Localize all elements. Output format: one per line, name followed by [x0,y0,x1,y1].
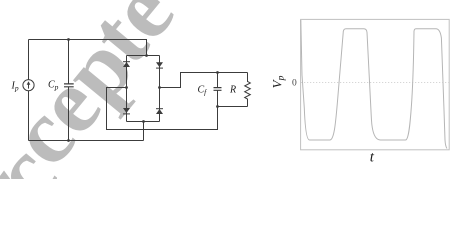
watermark fragment (next row letter tip, bottom-left corner) [0,171,11,181]
wire: bottom rail of input loop [29,140,144,142]
capacitor Cf bottom lead [217,90,219,106]
wire: left vertical above current source [28,40,30,80]
capacitor Cp top lead [68,40,70,84]
junction dot Cf bottom [216,105,219,108]
diode D2 (top-right, pointing down) [156,62,163,67]
svg-text:Vp: Vp [270,75,287,88]
bridge bottom rail [127,121,160,123]
wire: DC plus path (right mid to top of output loop) [160,73,248,88]
bridge left branch [126,56,128,122]
current source Ip circle [23,80,34,91]
wire: bridge bottom feed to bottom rail [143,122,145,141]
capacitor Cf plates [214,88,222,91]
junction dot bridge left mid [125,86,128,89]
svg-text:Cf: Cf [198,85,208,97]
wire: DC minus path (left mid to Cf bottom) [107,88,218,130]
diode D3 (bottom-left, pointing down) [123,108,130,113]
junction dot Cp top [67,38,70,41]
wire: output loop bottom rail [218,106,248,108]
wire: left vertical below current source [28,91,30,141]
waveform Vp(t) [301,20,447,149]
plot box [301,19,450,149]
capacitor Cp plates [64,84,74,87]
bridge top rail [127,55,160,57]
junction dot Cf top [216,71,219,74]
junction dot Cp bottom [67,139,70,142]
diode D1 (top-left, pointing up) [123,62,130,67]
capacitor Cf top lead [217,73,219,88]
junction dot bridge right mid [158,86,161,89]
resistor R with zigzag [245,73,251,107]
svg-text:R: R [229,85,236,96]
wire: top rail of input loop [29,40,147,56]
plot zero dotted line [301,82,449,84]
capacitor Cp bottom lead [68,87,70,141]
current source Ip arrow [28,83,30,88]
diode D4 (bottom-right, pointing up) [156,109,163,114]
junction dot bridge top feed [145,54,148,57]
bridge right branch [159,56,161,122]
current source arrowhead [27,81,31,85]
svg-text:Ip: Ip [11,81,19,93]
junction dot bridge bottom feed [142,120,145,123]
svg-text:0: 0 [292,79,297,89]
svg-text:t: t [370,149,375,165]
